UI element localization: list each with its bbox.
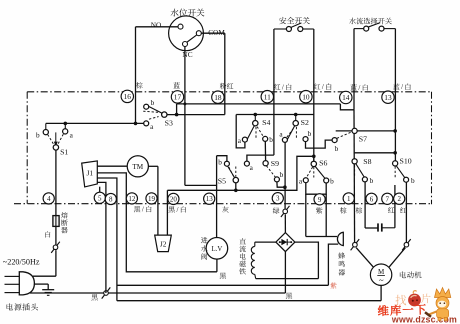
- label wire red/white 2: [314, 83, 320, 89]
- terminal 2 mid row: [394, 193, 405, 204]
- wire motor bottom to return bus: [380, 285, 382, 300]
- wire S8 top link: [355, 152, 396, 154]
- terminal 18 top row: [212, 91, 224, 103]
- terminal 12 mid row: [126, 193, 137, 204]
- terminal 7 mid row: [382, 193, 393, 204]
- terminal 11 top row: [261, 91, 273, 103]
- terminal 4 mid row: [43, 193, 54, 204]
- wire main chain 14/S7/S8/terminal 1 to motor: [353, 110, 356, 245]
- svg-text:b: b: [411, 176, 415, 185]
- svg-text:/: /: [177, 206, 179, 214]
- wire S5 common stub to common net: [235, 183, 237, 191]
- plug pin 2: [5, 283, 20, 285]
- svg-text:/: /: [358, 84, 360, 92]
- connector J2: [155, 235, 172, 252]
- svg-text:TM: TM: [132, 163, 143, 171]
- svg-text:~220/50Hz: ~220/50Hz: [3, 258, 40, 267]
- svg-text:6: 6: [370, 195, 374, 203]
- terminal 20 mid row: [168, 193, 179, 204]
- svg-text:J1: J1: [87, 169, 94, 178]
- label wire blue/white 2: [393, 83, 399, 89]
- connector contact motor right: [402, 239, 411, 250]
- wire to ground: [47, 284, 49, 289]
- terminal 6 mid row: [366, 193, 377, 204]
- wire S9 contact b link: [277, 182, 285, 187]
- wire S8 contact b to capacitor: [364, 182, 366, 228]
- svg-text:NO: NO: [151, 21, 162, 30]
- svg-text:b: b: [36, 131, 40, 140]
- wire S3 common to COM vertical: [167, 114, 225, 116]
- connector contact on white wire: [51, 242, 60, 253]
- wire valve feed vertical through terminal 13: [216, 156, 218, 238]
- label fuse: [61, 212, 68, 218]
- svg-text:8: 8: [109, 196, 113, 204]
- label DC electromagnet: [239, 238, 245, 244]
- capacitor C: [377, 223, 379, 231]
- label wire grey: [222, 206, 228, 212]
- wire cam feed bar: [236, 114, 314, 116]
- label buzzer: [338, 252, 345, 258]
- wire dash-dot enclosure top border: [27, 91, 431, 93]
- svg-text:14: 14: [342, 93, 350, 102]
- wire dash-dot enclosure right border: [431, 92, 433, 205]
- wire S1 common down through terminal 4 and fuse: [55, 150, 57, 247]
- wire S10 contact b to motor right: [405, 182, 407, 244]
- label wire brown: [136, 82, 143, 88]
- wire S4 contact b to S9: [264, 142, 266, 161]
- connector contact on green wire: [281, 206, 290, 217]
- wire buzzer return: [117, 284, 329, 286]
- svg-text:b: b: [330, 177, 334, 186]
- switch S10: [396, 166, 407, 182]
- wire dash-dot enclosure left border: [26, 92, 28, 204]
- connector contact on black bus: [102, 287, 111, 298]
- wire capacitor left lead: [365, 227, 378, 229]
- switch S2: [295, 115, 297, 121]
- label wire black near plug: [91, 294, 97, 300]
- wire S7 line node14 to node13: [336, 130, 395, 132]
- switch S1: [45, 123, 47, 129]
- svg-text:20: 20: [170, 195, 178, 203]
- junction S5 common net: [234, 189, 238, 193]
- terminal 8 mid row: [105, 193, 116, 204]
- wire NC bus stub to S3 output: [176, 104, 178, 115]
- label wire blue: [173, 82, 179, 88]
- wire to motor right terminal: [389, 248, 405, 267]
- wire valve bottom: [216, 259, 218, 272]
- wire node 13 vertical to S10: [394, 29, 396, 164]
- terminal 13 top row: [382, 91, 394, 103]
- inlet valve LV (进水阀): [206, 238, 228, 260]
- wire plug earth output: [34, 283, 48, 285]
- label wire black valve return: [220, 273, 226, 279]
- wire node 14 vertical: [353, 29, 355, 110]
- svg-text:16: 16: [124, 92, 132, 101]
- wire green to rectifier: [284, 214, 286, 232]
- watermark dzsc ghost text: [396, 295, 407, 306]
- svg-text:NC: NC: [182, 50, 192, 59]
- svg-text:/: /: [322, 83, 324, 91]
- terminal 10 top row: [300, 91, 312, 103]
- wire dash-dot terminal mid line: [14, 203, 432, 205]
- wire plug live output: [33, 275, 56, 277]
- terminal 1 mid row: [343, 193, 354, 204]
- terminal 17 top row: [171, 91, 183, 103]
- svg-text:b: b: [308, 129, 312, 138]
- wire NO to node 16: [136, 26, 178, 28]
- wire node 18 vertical: [224, 33, 226, 114]
- svg-text:13: 13: [206, 195, 214, 203]
- switch S9: [263, 161, 268, 166]
- label wire black/white 2: [168, 206, 174, 212]
- wire rectifier right down: [295, 242, 319, 279]
- rectifier diode bridge: [276, 233, 295, 252]
- wire node 16 vertical: [135, 27, 137, 124]
- svg-text:b: b: [280, 170, 284, 179]
- water flow selector switch (水流选择开关): [354, 28, 364, 30]
- svg-text:/: /: [142, 206, 144, 214]
- label wire brown 2: [356, 207, 363, 213]
- wire buzzer bottom to return: [328, 244, 338, 285]
- wire NC to node 17: [184, 47, 186, 104]
- label wire black/white 1: [134, 206, 140, 212]
- wire S5 contact b to valve feed: [217, 156, 227, 162]
- svg-text:11: 11: [264, 92, 271, 101]
- connector contact motor left: [351, 239, 360, 250]
- terminal 16 top row: [121, 90, 133, 102]
- wire S6 contacts a-b link: [306, 183, 326, 194]
- terminal 19 mid row: [146, 193, 157, 204]
- svg-text:S8: S8: [363, 157, 371, 166]
- timer motor TM: [127, 156, 148, 177]
- label wire blue/white 1: [350, 84, 356, 90]
- junction NC bus: [183, 102, 186, 105]
- svg-text:3: 3: [276, 195, 280, 203]
- svg-text:~: ~: [379, 275, 384, 285]
- wire node 17 down to valve feed: [184, 104, 186, 185]
- buzzer HA (蜂鸣器): [337, 232, 343, 245]
- svg-text:S1: S1: [60, 147, 68, 156]
- plug pin 1: [5, 275, 20, 277]
- svg-text:4: 4: [47, 195, 51, 203]
- wire NC bus jog to node 14 branch: [340, 104, 354, 110]
- wire J1 pin to timer motor TM: [97, 165, 127, 167]
- terminal 5 mid row: [94, 192, 105, 203]
- watermark brand text: [378, 304, 426, 316]
- wire COM to node 18: [201, 32, 224, 34]
- svg-text:b: b: [335, 144, 339, 153]
- junction S9 link: [283, 185, 287, 189]
- label wire red 1: [388, 207, 394, 213]
- svg-text:/: /: [401, 83, 403, 91]
- junction S8 link on node 13 vertical: [393, 151, 397, 155]
- wire S3 contact a to S1 bar: [46, 122, 144, 124]
- junction S3/NC bus: [175, 113, 179, 117]
- svg-text:S4: S4: [262, 118, 270, 127]
- wire rectifier left to coil top: [255, 241, 276, 243]
- wire fuse to plug: [55, 250, 57, 276]
- svg-text:S10: S10: [400, 157, 412, 166]
- svg-text:S5: S5: [218, 177, 226, 186]
- wire buzzer feed horizontal: [306, 236, 337, 238]
- plug pin 3: [5, 292, 20, 294]
- label wire red/white 1: [274, 84, 280, 90]
- svg-text:b: b: [269, 135, 273, 144]
- label motor: [400, 271, 406, 278]
- ground: [42, 289, 54, 291]
- water level switch SQ (水位开关): [169, 16, 204, 51]
- svg-text:b: b: [151, 98, 155, 107]
- wire to motor left terminal: [356, 248, 373, 267]
- label wire purple: [316, 207, 322, 213]
- wire motor return: [117, 300, 381, 302]
- terminal 3 mid row: [272, 193, 283, 204]
- wire S2 contact a down through terminal 3: [284, 143, 286, 209]
- svg-text:7: 7: [386, 195, 390, 203]
- label water level switch title: [171, 9, 179, 17]
- label inlet valve: [201, 237, 208, 243]
- wire common net S5/S6/J2: [167, 156, 313, 190]
- label wire pink: [220, 83, 227, 89]
- label wire white: [45, 231, 50, 237]
- wire rectifier bottom to black bus: [284, 252, 286, 293]
- label wire brown 1: [340, 207, 347, 213]
- fuse FU (熔断器): [53, 216, 59, 227]
- svg-text:b: b: [370, 176, 374, 185]
- wire J1 pin through terminal 8 area to motor return bus: [97, 178, 117, 301]
- svg-text:19: 19: [148, 195, 156, 203]
- svg-text:S2: S2: [301, 118, 309, 127]
- svg-text:2: 2: [397, 195, 401, 203]
- wire S6 a down to buzzer feed: [305, 194, 307, 236]
- junction S6 common feed: [312, 155, 316, 159]
- wire J1 pin through terminal 12 to valve return: [97, 173, 217, 272]
- svg-text:12: 12: [128, 195, 136, 203]
- svg-text:S6: S6: [319, 159, 327, 168]
- wire NC bus horizontal: [177, 103, 341, 105]
- wire J1 pin to black bus: [97, 182, 106, 293]
- junction S7 on node 13 vertical: [393, 129, 397, 133]
- svg-text:/: /: [282, 83, 284, 91]
- svg-text:S7: S7: [359, 134, 367, 143]
- svg-text:b: b: [218, 157, 222, 166]
- wire bar to S4 contact a: [236, 115, 245, 148]
- label wire red 2: [400, 207, 406, 213]
- svg-text:1: 1: [347, 195, 351, 203]
- wire terminal 19 to J2 pin 1: [157, 166, 159, 235]
- label wire green: [273, 207, 280, 213]
- safety switch (安全开关): [274, 28, 287, 30]
- connector J1: [82, 161, 98, 187]
- wire TM to terminal 19: [148, 165, 158, 167]
- wire valve feed horizontal: [185, 184, 217, 186]
- terminal 9 mid row: [314, 194, 325, 205]
- terminal 13 mid row: [204, 193, 215, 204]
- motor M (电动机): [370, 264, 391, 285]
- svg-text:13: 13: [384, 93, 392, 102]
- wire node 11 vertical to S5 contact a: [273, 29, 275, 155]
- wire S5 contact a to node 11 vertical: [247, 155, 274, 161]
- label wire black near rectifier: [286, 293, 292, 299]
- watermark red ball logo: [408, 294, 421, 307]
- switch S6: [313, 156, 315, 161]
- junction bar S2: [294, 113, 298, 117]
- svg-text:18: 18: [214, 93, 222, 102]
- junction node 16 on S1 bar: [134, 122, 138, 126]
- wire terminal 9 to buzzer feed: [325, 194, 327, 236]
- junction bar S4: [254, 113, 258, 117]
- wire neutral black bus (plug to rectifier bottom): [30, 292, 286, 294]
- switch S4: [254, 115, 256, 121]
- wire terminal 7 to capacitor: [394, 185, 396, 228]
- power plug (电源插头): [19, 272, 34, 295]
- terminal 14 top row: [340, 91, 352, 103]
- svg-text:9: 9: [318, 196, 322, 204]
- label flow selector title: [349, 18, 356, 25]
- wire J1 pin stub to terminal 5: [99, 187, 101, 193]
- wire node 10 vertical to S6 common: [313, 29, 315, 164]
- svg-text:17: 17: [174, 93, 182, 102]
- watermark mascot: [435, 288, 451, 321]
- svg-text:S3: S3: [165, 118, 173, 127]
- wire S2 contact b to S7 contact b: [306, 140, 332, 148]
- svg-text:10: 10: [302, 92, 310, 101]
- svg-text:S9: S9: [271, 159, 279, 168]
- switch S3: [148, 106, 163, 114]
- label power plug: [7, 303, 14, 310]
- svg-text:5: 5: [98, 194, 102, 202]
- wire J2 pin 2 to terminal 20: [166, 190, 168, 235]
- wire coil bottom link: [256, 278, 319, 280]
- label safety switch title: [279, 17, 286, 24]
- junction S1 contact a stub: [64, 122, 68, 126]
- switch S5: [225, 162, 235, 179]
- svg-text:J2: J2: [160, 240, 167, 249]
- svg-text:L.V: L.V: [212, 246, 223, 253]
